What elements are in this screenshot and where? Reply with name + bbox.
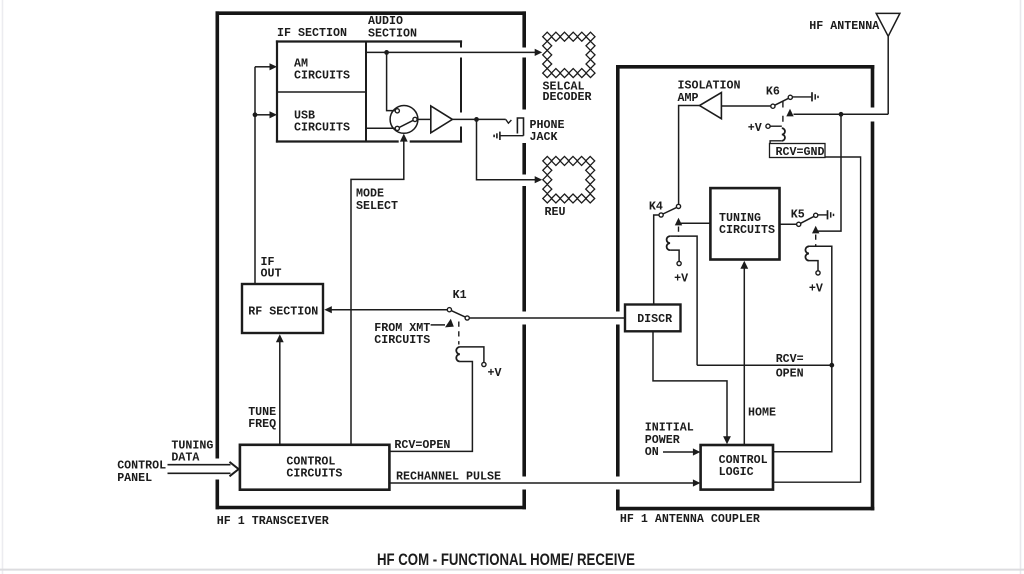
- HF 1 ANTENNA COUPLER enclosure box: [616, 65, 874, 510]
- svg-text:RCV=OPEN: RCV=OPEN: [394, 438, 450, 452]
- relay contact K4 input terminal: [676, 204, 680, 208]
- svg-text:RECHANNEL PULSE: RECHANNEL PULSE: [396, 470, 501, 484]
- wire branch from AM audio down to mode selector: [387, 52, 395, 110]
- svg-text:+V: +V: [488, 366, 503, 380]
- tuning data bus line upper: [168, 464, 231, 466]
- relay K4 actuator dashed link: [678, 227, 680, 238]
- svg-text:AMP: AMP: [678, 91, 699, 105]
- svg-text:CIRCUITS: CIRCUITS: [294, 121, 350, 135]
- wire AM circuits audio output to SELCAL decoder: [366, 51, 537, 53]
- wire arrow into AM circuits: [255, 66, 270, 68]
- svg-text:K6: K6: [766, 85, 780, 99]
- wire HOME control logic to tuning circuits: [743, 267, 745, 446]
- phone jack body: [517, 118, 523, 136]
- node junction on amplifier output: [474, 117, 479, 122]
- relay contact K4 blade: [663, 207, 677, 214]
- arrow FROM XMT pointing at K1 blade: [445, 319, 454, 328]
- svg-text:CIRCUITS: CIRCUITS: [374, 333, 430, 347]
- wire amplifier output to phone jack: [452, 118, 505, 120]
- relay contact K6 common terminal: [771, 104, 775, 108]
- relay contact K5 blade: [801, 216, 814, 223]
- ground symbol at phone jack: [499, 132, 501, 140]
- mode selector pin AM: [395, 109, 399, 113]
- svg-text:PANEL: PANEL: [117, 471, 152, 485]
- svg-text:SECTION: SECTION: [368, 27, 417, 41]
- CONTROL CIRCUITS box: [240, 445, 390, 490]
- wire selector output to isolation amplifier input: [417, 118, 431, 120]
- wire tuning circuits to K5 common: [780, 223, 797, 225]
- relay coil K1: [456, 347, 460, 362]
- arrow pointing up at K6 blade: [786, 109, 793, 117]
- node junction on AM audio line: [384, 50, 389, 55]
- RCV=GND label box: [770, 144, 826, 158]
- svg-text:HF 1 TRANSCEIVER: HF 1 TRANSCEIVER: [217, 514, 330, 528]
- terminal circle +V for K6: [766, 124, 770, 128]
- wire amplifier output down and right to REU: [477, 119, 537, 179]
- svg-text:JACK: JACK: [530, 130, 559, 144]
- wire +V to K6 coil: [770, 125, 782, 127]
- DISCR box: [625, 305, 681, 332]
- wire mode select from control circuits up to selector: [351, 139, 404, 445]
- svg-text:DECODER: DECODER: [543, 90, 593, 104]
- wire IF out vertical to AM/USB inputs: [254, 67, 256, 284]
- ISOLATION AMP triangle U2: [700, 93, 722, 119]
- mode selector pin USB: [395, 126, 399, 130]
- K6 open contact stub bars: [811, 92, 813, 101]
- mode selector switch S1 body: [390, 106, 418, 134]
- relay coil K5: [805, 246, 809, 260]
- wire K1 coil bottom to RCV=OPEN control line: [389, 362, 472, 452]
- svg-text:RF SECTION: RF SECTION: [248, 304, 318, 318]
- TUNING CIRCUITS box: [710, 188, 779, 259]
- wire K5 coil top right and down (RCV=OPEN riser): [773, 246, 832, 451]
- wire RCV=GND box to control logic (right side): [773, 157, 861, 482]
- svg-text:HF 1 ANTENNA COUPLER: HF 1 ANTENNA COUPLER: [620, 512, 761, 526]
- K5 open contact stub bars: [827, 210, 829, 219]
- relay contact K5 normally-open terminal: [814, 213, 818, 217]
- relay K6 actuator dashed link: [782, 102, 784, 127]
- svg-text:CIRCUITS: CIRCUITS: [286, 467, 342, 481]
- svg-text:HOME: HOME: [748, 406, 776, 420]
- svg-text:ON: ON: [645, 445, 659, 459]
- relay K1 actuator dashed link: [458, 322, 460, 345]
- svg-text:+V: +V: [674, 271, 689, 285]
- svg-text:CIRCUITS: CIRCUITS: [719, 223, 775, 237]
- node junction on IF feed: [253, 112, 258, 117]
- wire INITIAL POWER ON into control logic: [663, 451, 695, 453]
- wire TUNE FREQ control circuits to RF section: [279, 340, 281, 445]
- wire tuning circuits to K4 arrow: [679, 222, 711, 224]
- wire RECHANNEL PULSE to control logic: [389, 482, 694, 484]
- wire arrow into USB circuits: [255, 114, 270, 116]
- wire antenna feed into coupler to K6: [794, 113, 889, 115]
- svg-text:RCV=GND: RCV=GND: [776, 145, 825, 159]
- wire FROM XMT dash: [431, 324, 445, 326]
- wire K5 NO terminal to stub: [818, 214, 827, 216]
- svg-text:K4: K4: [649, 200, 663, 214]
- svg-text:DISCR: DISCR: [637, 312, 673, 326]
- wire K1 to DISCR in antenna coupler: [469, 317, 625, 319]
- terminal circle +V for K4: [677, 261, 681, 265]
- wire K1 coil top to +V terminal: [460, 347, 484, 363]
- relay contact K1 blade: [451, 311, 465, 318]
- arrow pointing up at K4 blade: [675, 218, 682, 226]
- relay coil K6: [782, 128, 785, 141]
- arrow pointing up at K5 blade: [812, 226, 819, 234]
- relay coil K4: [667, 236, 671, 250]
- wire USB circuits audio output to mode selector: [366, 127, 395, 129]
- svg-text:+V: +V: [809, 281, 824, 295]
- svg-text:K5: K5: [791, 208, 805, 222]
- wire K6 common to isolation amp: [721, 105, 770, 107]
- wire RCV=OPEN horizontal in coupler: [697, 364, 832, 366]
- node junction antenna line: [839, 112, 844, 117]
- svg-text:OUT: OUT: [261, 266, 282, 280]
- tuning data bus open arrowhead: [230, 462, 239, 476]
- relay contact K1 normally-open terminal: [465, 316, 469, 320]
- svg-text:FREQ: FREQ: [248, 417, 276, 431]
- wire K4 common down to DISCR: [654, 215, 659, 305]
- relay contact K4 common terminal: [659, 213, 663, 217]
- svg-text:DATA: DATA: [171, 451, 200, 465]
- REU chain box: [543, 156, 552, 165]
- wire K5 arrow right and up to antenna junction: [816, 114, 841, 231]
- SELCAL DECODER chain box: [543, 32, 552, 41]
- HF antenna symbol: [876, 13, 900, 114]
- relay contact K5 common terminal: [797, 222, 801, 226]
- svg-text:REU: REU: [545, 205, 566, 219]
- mode selector wiper: [397, 119, 415, 128]
- wire K6 coil bottom into RCV=GND box: [770, 141, 782, 144]
- IF SECTION box (AM / USB circuits): [276, 40, 462, 142]
- svg-text:SELECT: SELECT: [356, 199, 398, 213]
- svg-text:CIRCUITS: CIRCUITS: [294, 69, 350, 83]
- phone jack tip spring contact: [506, 119, 512, 123]
- svg-text:LOGIC: LOGIC: [719, 465, 754, 479]
- RF SECTION box: [242, 284, 323, 333]
- phone jack sleeve ground wire: [500, 135, 524, 137]
- wire K6 NO terminal to stub: [792, 96, 811, 98]
- wire DISCR output down and to control logic: [653, 331, 727, 439]
- relay contact K6 blade: [775, 98, 789, 105]
- node junction RCV=OPEN riser: [829, 363, 834, 368]
- svg-text:OPEN: OPEN: [776, 366, 804, 380]
- wire K4 coil bottom to +V: [670, 250, 679, 261]
- mode selector pin output: [413, 117, 417, 121]
- wire K4 coil top right and down to RCV=OPEN line: [670, 236, 697, 365]
- scan edge artifact left: [2, 0, 4, 574]
- svg-text:+V: +V: [748, 121, 763, 135]
- audio amplifier A1: [431, 106, 453, 133]
- scan edge artifact bottom: [0, 569, 1024, 571]
- svg-text:RCV=: RCV=: [776, 352, 804, 366]
- scan edge artifact right: [1020, 0, 1022, 574]
- svg-text:HF COM - FUNCTIONAL HOME/ RECE: HF COM - FUNCTIONAL HOME/ RECEIVE: [377, 550, 635, 569]
- wire K1 to RF section input: [330, 309, 447, 311]
- wire K5 coil bottom to +V: [809, 261, 818, 271]
- svg-text:HF ANTENNA: HF ANTENNA: [809, 19, 880, 33]
- terminal circle +V for K1: [482, 362, 486, 366]
- svg-text:IF SECTION: IF SECTION: [277, 26, 347, 40]
- HF 1 TRANSCEIVER enclosure box: [216, 11, 527, 509]
- CONTROL LOGIC box: [701, 445, 773, 490]
- tuning data bus line lower: [168, 472, 231, 474]
- svg-text:K1: K1: [453, 288, 467, 302]
- relay K5 actuator dashed link: [815, 235, 817, 246]
- relay contact K1 common terminal: [447, 308, 451, 312]
- wire isolation amp output down to K4: [679, 106, 700, 205]
- terminal circle +V for K5: [816, 271, 820, 275]
- relay contact K6 normally-open terminal: [788, 95, 792, 99]
